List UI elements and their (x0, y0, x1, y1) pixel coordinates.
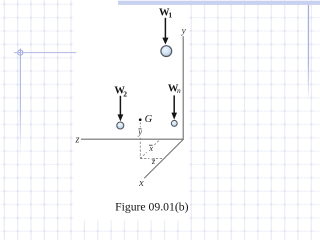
svg-text:x: x (148, 144, 153, 153)
svg-text:2: 2 (123, 90, 127, 99)
y-axis (182, 36, 184, 139)
svg-text:G: G (145, 114, 153, 125)
svg-text:y: y (137, 127, 142, 136)
svg-text:x: x (138, 178, 144, 189)
weight W2 sphere (117, 122, 124, 129)
top periwinkle bar (118, 1, 320, 5)
svg-text:z: z (151, 157, 156, 166)
dashed line zbar (horizontal to x-axis) (140, 158, 164, 160)
compass vertical line (20, 49, 21, 158)
svg-text:n: n (177, 86, 181, 95)
weight Wn arrow (171, 95, 177, 119)
weight Wn sphere (171, 120, 177, 126)
svg-text:Figure 09.01(b): Figure 09.01(b) (115, 201, 188, 214)
white figure panel (74, 0, 190, 221)
x-axis (144, 139, 183, 178)
ybar label (137, 127, 142, 136)
right vertical fading line (308, 5, 309, 101)
z-axis (81, 138, 184, 140)
dashed line xbar (diagonal to z-axis) (140, 140, 160, 159)
compass horizontal line (14, 52, 76, 54)
svg-text:y: y (181, 26, 187, 36)
weight W1 sphere (161, 46, 172, 57)
weight W1 arrow (162, 18, 168, 45)
svg-text:1: 1 (168, 11, 172, 20)
dashed line ybar (vertical from G) (139, 122, 141, 158)
weight W2 arrow (118, 96, 124, 122)
center of gravity G dot (139, 118, 142, 121)
compass circle (18, 50, 23, 55)
svg-text:z: z (74, 135, 79, 146)
zbar label (151, 157, 156, 166)
xbar label (148, 144, 153, 153)
